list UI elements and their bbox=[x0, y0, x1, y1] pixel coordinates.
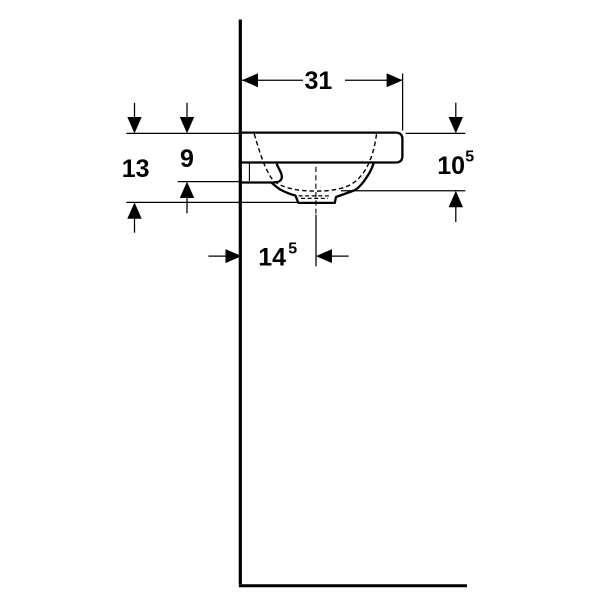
svg-text:10: 10 bbox=[437, 152, 465, 180]
svg-text:14: 14 bbox=[258, 243, 286, 271]
svg-text:13: 13 bbox=[122, 155, 150, 183]
svg-text:5: 5 bbox=[465, 149, 474, 166]
svg-text:31: 31 bbox=[304, 67, 332, 95]
svg-text:5: 5 bbox=[288, 241, 297, 258]
svg-text:9: 9 bbox=[180, 145, 194, 173]
